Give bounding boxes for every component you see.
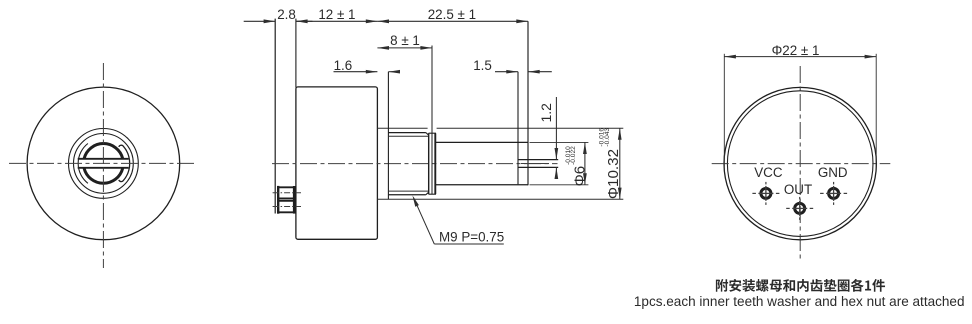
svg-text:2.8: 2.8 [277, 7, 296, 22]
svg-text:-0.022: -0.022 [570, 146, 577, 165]
svg-text:1pcs.each inner teeth washer a: 1pcs.each inner teeth washer and hex nut… [634, 294, 965, 309]
svg-text:1.5: 1.5 [473, 58, 492, 73]
svg-text:8 ± 1: 8 ± 1 [390, 33, 420, 48]
svg-text:Φ22 ± 1: Φ22 ± 1 [772, 43, 820, 58]
svg-text:1.2: 1.2 [538, 103, 554, 123]
svg-text:M9 P=0.75: M9 P=0.75 [439, 230, 504, 245]
svg-text:22.5 ± 1: 22.5 ± 1 [428, 7, 476, 22]
svg-text:12 ± 1: 12 ± 1 [318, 7, 355, 22]
svg-text:Φ10.32: Φ10.32 [605, 149, 622, 199]
svg-text:-0.043: -0.043 [604, 128, 611, 147]
svg-text:1.6: 1.6 [334, 58, 353, 73]
svg-text:GND: GND [818, 165, 848, 180]
svg-text:OUT: OUT [784, 182, 812, 197]
svg-text:VCC: VCC [754, 165, 783, 180]
svg-text:Φ6: Φ6 [571, 166, 588, 187]
